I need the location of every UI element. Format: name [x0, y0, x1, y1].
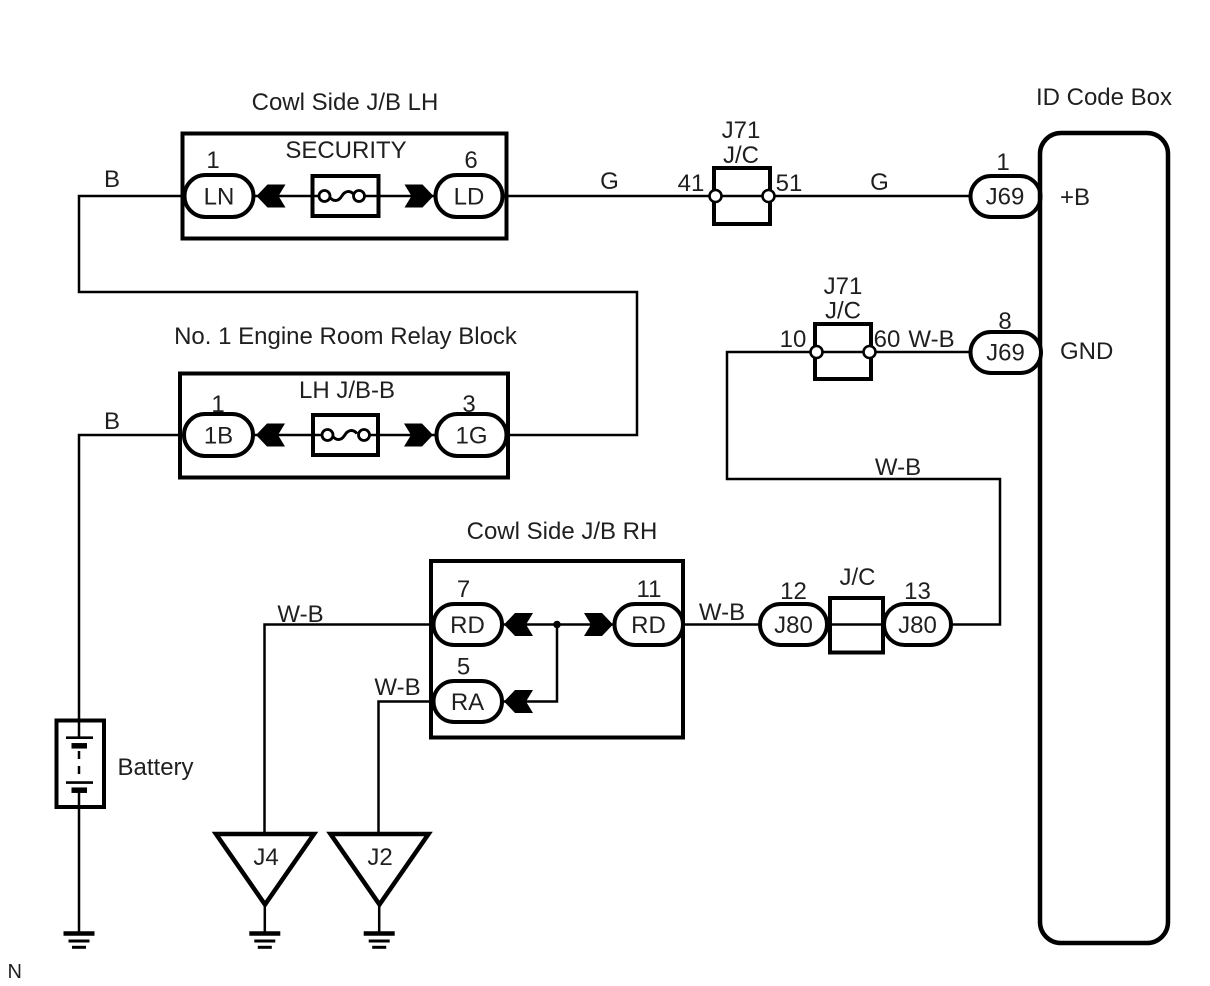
wire fuse LH J/B-B to 1G: [378, 434, 437, 437]
arrow left toward RD7: [504, 613, 533, 636]
wire J4 to ground: [264, 904, 267, 932]
wire W-B from RD pin7 to J4: [265, 625, 434, 834]
shield triangle J2: [331, 834, 429, 905]
wire junction link inside Cowl Side J/B RH: [502, 623, 615, 626]
box No. 1 Engine Room Relay Block: [180, 374, 508, 478]
fuse LH J/B-B: [313, 415, 378, 455]
connector pill J69 +B: [971, 176, 1041, 217]
svg-text:J71: J71: [824, 273, 863, 300]
svg-text:J80: J80: [898, 612, 937, 639]
svg-text:41: 41: [678, 170, 705, 197]
arrow left toward RA: [504, 690, 533, 713]
svg-text:J/C: J/C: [825, 298, 861, 325]
ground below J4: [249, 934, 280, 948]
svg-text:11: 11: [637, 576, 662, 603]
ground below J2: [364, 934, 395, 948]
box Cowl Side J/B RH: [431, 561, 683, 738]
connector pill 1G: [437, 414, 507, 456]
svg-text:W-B: W-B: [908, 326, 954, 353]
svg-text:LD: LD: [454, 184, 485, 211]
svg-text:RD: RD: [450, 612, 485, 639]
svg-text:7: 7: [457, 576, 470, 603]
battery: [57, 721, 105, 808]
svg-text:60: 60: [874, 326, 901, 353]
junction block J/C at J80: [830, 598, 883, 653]
svg-text:GND: GND: [1060, 338, 1113, 365]
svg-text:1G: 1G: [455, 423, 487, 450]
ground below battery: [64, 934, 95, 948]
junction block J71 top: [714, 168, 770, 224]
svg-text:W-B: W-B: [374, 674, 420, 701]
wire W-B GND net from J69 pin8 through J71 down and around to J80 pin13: [727, 352, 1000, 625]
svg-text:J2: J2: [367, 844, 392, 871]
arrow right toward RD11: [584, 613, 613, 636]
svg-text:B: B: [104, 408, 120, 435]
wire fuse SECURITY to LD: [379, 195, 436, 198]
shield triangle J4: [216, 834, 314, 905]
connector pill J69 GND: [971, 332, 1042, 373]
svg-text:No. 1 Engine Room Relay Block: No. 1 Engine Room Relay Block: [174, 323, 518, 350]
svg-text:J69: J69: [986, 184, 1025, 211]
wire J2 to ground: [378, 904, 381, 932]
svg-text:1: 1: [996, 149, 1009, 176]
wire battery to ground: [78, 807, 81, 932]
wire W-B from RA pin5 to J2: [379, 702, 434, 834]
wire RD11 to J80 pin12: [683, 623, 760, 626]
connector pill 1B: [184, 414, 253, 456]
svg-text:12: 12: [780, 578, 807, 605]
wire G from LD to J71: [502, 195, 714, 198]
svg-text:RA: RA: [451, 689, 484, 716]
wire B from LN pin1 down and around to 1G right side: [79, 196, 637, 435]
svg-text:J/C: J/C: [840, 564, 876, 591]
svg-text:Cowl Side J/B LH: Cowl Side J/B LH: [252, 89, 439, 116]
svg-text:RD: RD: [631, 612, 666, 639]
wire inside J71 top: [714, 195, 770, 198]
svg-text:ID Code Box: ID Code Box: [1036, 84, 1172, 111]
svg-text:5: 5: [457, 654, 470, 681]
terminal circle 41: [710, 190, 722, 202]
svg-text:W-B: W-B: [277, 601, 323, 628]
connector pill RD pin7: [434, 604, 503, 645]
svg-text:1: 1: [206, 147, 219, 174]
svg-text:J4: J4: [253, 844, 278, 871]
svg-text:J/C: J/C: [723, 142, 759, 169]
arrow left toward 1B: [256, 424, 285, 447]
wire battery feed from 1B pin1 to battery: [79, 435, 184, 720]
connector pill LD: [436, 175, 503, 217]
svg-text:10: 10: [780, 326, 807, 353]
svg-text:Cowl Side J/B RH: Cowl Side J/B RH: [467, 518, 658, 545]
arrow right toward 1G: [404, 424, 433, 447]
connector pill RA: [434, 681, 503, 722]
ID Code Box: [1040, 133, 1168, 943]
box Cowl Side J/B LH: [183, 134, 507, 239]
svg-text:1B: 1B: [204, 423, 233, 450]
svg-text:LN: LN: [204, 184, 235, 211]
svg-text:+B: +B: [1060, 184, 1090, 211]
svg-text:13: 13: [904, 578, 931, 605]
svg-text:J71: J71: [722, 117, 761, 144]
connector pill RD pin11: [615, 604, 684, 645]
svg-text:W-B: W-B: [699, 599, 745, 626]
junction node in Cowl Side J/B RH: [553, 621, 561, 629]
svg-text:51: 51: [776, 170, 803, 197]
svg-text:J80: J80: [774, 612, 813, 639]
arrow right toward LD: [405, 185, 434, 208]
terminal circle 51: [763, 190, 775, 202]
junction block J71 lower: [815, 324, 871, 379]
connector pill LN: [185, 175, 254, 217]
svg-text:G: G: [870, 169, 889, 196]
svg-text:SECURITY: SECURITY: [285, 137, 406, 164]
terminal circle 60: [864, 346, 876, 358]
terminal circle 10: [811, 346, 823, 358]
svg-text:N: N: [8, 961, 22, 983]
svg-text:6: 6: [464, 147, 477, 174]
connector pill J80 pin13: [884, 604, 951, 645]
arrow left toward LN: [257, 185, 286, 208]
svg-text:Battery: Battery: [118, 754, 194, 781]
wire through J/C between J80 pills: [827, 623, 884, 626]
wire G from J71 to J69 pin1: [770, 195, 971, 198]
wire 1B to fuse LH J/B-B: [253, 434, 313, 437]
connector pill J80 pin12: [760, 604, 827, 645]
svg-text:LH J/B-B: LH J/B-B: [299, 377, 395, 404]
wire from junction node down to RA arrow: [502, 625, 557, 702]
fuse SECURITY: [313, 176, 379, 216]
svg-text:W-B: W-B: [875, 454, 921, 481]
svg-text:G: G: [600, 168, 619, 195]
svg-text:B: B: [104, 166, 120, 193]
wire LN to fuse SECURITY: [254, 195, 313, 198]
svg-text:J69: J69: [986, 340, 1025, 367]
